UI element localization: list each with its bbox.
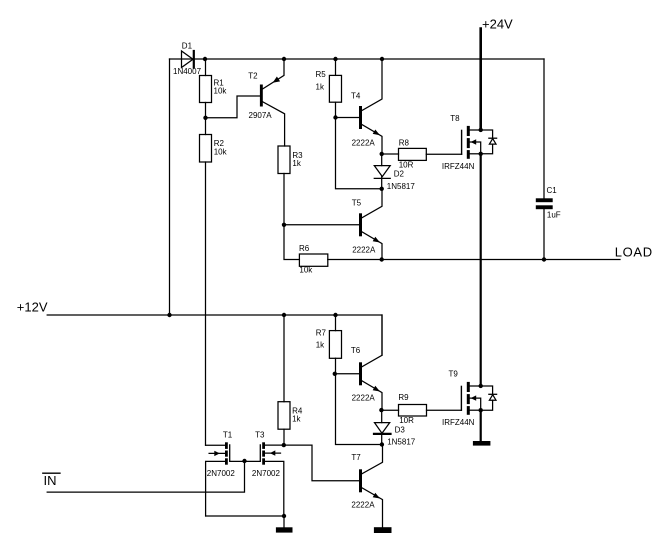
svg-text:1N5817: 1N5817 [387, 182, 416, 191]
svg-text:1k: 1k [292, 415, 301, 424]
wire R8 to T8 gate [426, 153, 461, 155]
svg-text:+24V: +24V [482, 17, 513, 32]
resistor R8 [382, 153, 399, 155]
svg-text:10k: 10k [299, 266, 313, 275]
svg-text:2907A: 2907A [249, 111, 273, 120]
svg-text:T6: T6 [351, 346, 361, 355]
svg-text:D3: D3 [395, 426, 406, 435]
node IN label [43, 472, 60, 474]
svg-text:2N7002: 2N7002 [252, 469, 281, 478]
transistor T2 [260, 85, 263, 107]
wire top +24V rail [170, 58, 545, 60]
wire R5 bottom down to D2 junction [336, 102, 382, 189]
wire T2 base from R1/R2 junction [206, 96, 260, 118]
wire T1 source to T3 source bottom [206, 515, 284, 517]
transistor T6 [359, 362, 362, 385]
svg-text:IRFZ44N: IRFZ44N [442, 418, 475, 427]
transistor T3 [262, 442, 265, 449]
svg-text:1k: 1k [316, 341, 325, 350]
transistor T1 [225, 442, 228, 449]
resistor R7 [335, 315, 337, 331]
svg-text:+12V: +12V [17, 300, 48, 315]
wire +24V stub thick [479, 29, 482, 131]
svg-text:2222A: 2222A [352, 394, 376, 403]
diode D3 [381, 410, 383, 422]
svg-text:LOAD: LOAD [615, 244, 653, 259]
diode T9 body diode [481, 386, 493, 394]
svg-text:T9: T9 [449, 370, 459, 379]
svg-text:2222A: 2222A [352, 138, 376, 147]
svg-text:T1: T1 [223, 430, 233, 439]
resistor R3 [278, 146, 290, 174]
wire R1 to R2 [205, 103, 207, 135]
svg-text:R5: R5 [316, 70, 327, 79]
svg-text:1k: 1k [316, 82, 325, 91]
diode D2 [381, 154, 383, 166]
resistor R9 [382, 409, 399, 411]
resistor R4 [283, 315, 285, 402]
wire R7 bottom down to D3 junction [336, 358, 382, 444]
wire T6 base [336, 373, 360, 375]
capacitor C1 [543, 59, 545, 198]
svg-text:2222A: 2222A [351, 501, 375, 510]
resistor R2 [200, 135, 212, 163]
svg-text:2N7002: 2N7002 [207, 469, 236, 478]
svg-text:R6: R6 [299, 244, 310, 253]
svg-text:1k: 1k [292, 159, 301, 168]
ground T7 [374, 527, 392, 533]
wire R9 to T9 gate [427, 409, 462, 411]
svg-text:T4: T4 [351, 91, 361, 100]
ground T1/T3 [283, 516, 285, 527]
wire R3 down to LOAD line corner [284, 174, 299, 260]
svg-text:10R: 10R [399, 161, 414, 170]
ground T9 [480, 410, 482, 441]
wire LOAD line [328, 259, 620, 261]
wire R4 bottom to T3 drain [283, 429, 285, 445]
transistor T5 [284, 224, 359, 226]
svg-text:10k: 10k [214, 87, 228, 96]
diode T8 body diode [481, 130, 493, 138]
resistor R6 [299, 254, 327, 266]
transistor T8 [461, 130, 463, 154]
svg-text:1N5817: 1N5817 [387, 437, 416, 446]
svg-text:T3: T3 [255, 430, 265, 439]
wire left rail vertical [169, 59, 171, 315]
svg-text:R9: R9 [398, 393, 409, 402]
svg-text:D1: D1 [182, 41, 193, 50]
svg-text:2222A: 2222A [352, 246, 376, 255]
svg-text:1N4007: 1N4007 [173, 67, 202, 76]
svg-text:R7: R7 [316, 328, 327, 337]
svg-text:T2: T2 [248, 71, 258, 80]
wire IN to gates [47, 461, 244, 492]
transistor T9 [460, 386, 462, 410]
transistor T7 [284, 445, 359, 481]
svg-text:T5: T5 [352, 198, 362, 207]
transistor T4 [359, 106, 362, 129]
wire T4 base [336, 117, 360, 119]
svg-text:10k: 10k [214, 147, 228, 156]
wire +12V line [47, 315, 382, 355]
wire R2 down to T1 drain [205, 162, 207, 445]
svg-text:10R: 10R [399, 416, 414, 425]
svg-text:D2: D2 [394, 170, 405, 179]
svg-text:IRFZ44N: IRFZ44N [442, 162, 475, 171]
svg-text:1uF: 1uF [547, 211, 561, 220]
diode D1 [182, 51, 194, 68]
svg-text:T8: T8 [450, 114, 460, 123]
svg-text:R8: R8 [399, 139, 410, 148]
svg-text:IN: IN [44, 473, 57, 488]
resistor R5 [335, 59, 337, 75]
wire T8 source down through LOAD to T9 drain [480, 154, 482, 386]
svg-text:C1: C1 [547, 186, 558, 195]
resistor R1 [205, 59, 207, 76]
svg-text:T7: T7 [351, 453, 361, 462]
